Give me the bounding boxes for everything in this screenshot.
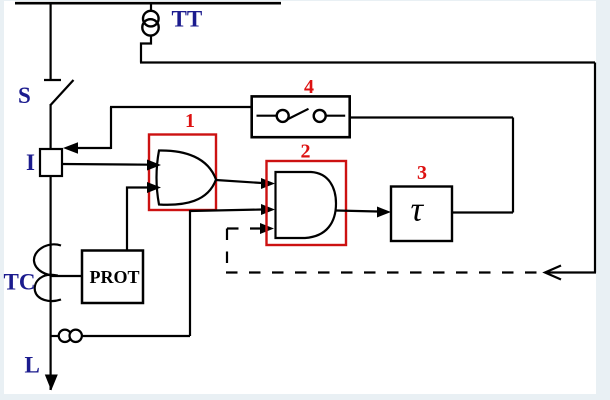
arrowhead AND input 2 xyxy=(261,204,275,215)
arrow into relay I (trip command) xyxy=(63,142,111,153)
wire: block4 to vertical xyxy=(110,106,252,108)
dashed feedback wire horizontal xyxy=(226,271,543,273)
load arrow (down) xyxy=(45,375,58,391)
red box 2 xyxy=(267,161,347,245)
wire: down from node to current sensor xyxy=(189,210,191,336)
wire: current sensor to AND input 2 xyxy=(190,210,262,212)
block 3 (time delay) xyxy=(391,187,452,242)
wire: block4 left line down to relay arrow xyxy=(110,107,112,149)
dashed feedback wire vertical xyxy=(226,229,228,274)
open arrowhead pointing left on feedback line xyxy=(545,266,561,280)
wire: AND output to block 3 xyxy=(336,211,378,212)
red box 1 xyxy=(149,135,216,211)
wire: right rail down xyxy=(594,63,596,273)
svg-text:τ: τ xyxy=(411,190,425,229)
svg-text:1: 1 xyxy=(185,110,195,132)
wire: TC to PROT xyxy=(51,275,82,277)
svg-text:TT: TT xyxy=(172,7,203,32)
busbar (top horizontal bus) xyxy=(15,2,281,5)
svg-text:3: 3 xyxy=(417,162,427,184)
wire: vertical up to block 4 line xyxy=(512,118,514,213)
wire: block 4 right line xyxy=(350,116,513,118)
PROT block xyxy=(82,251,143,304)
arrowhead OR input 1 xyxy=(147,160,161,171)
wire: block 3 output xyxy=(452,211,513,213)
wire: switch S to relay I xyxy=(49,104,51,149)
wire: relay I to load xyxy=(49,176,51,390)
wire: OR output to AND input 1 xyxy=(216,180,262,183)
dashed feedback wire into AND input 3 xyxy=(227,227,260,229)
svg-text:S: S xyxy=(18,83,31,108)
current sensor (two circles) on load line xyxy=(51,330,82,342)
svg-text:4: 4 xyxy=(304,76,314,98)
block 4 (auto-recloser contact box) xyxy=(252,96,350,137)
AND gate (element 2) xyxy=(276,172,337,238)
arrowhead OR input 2 xyxy=(147,182,161,193)
wire: current sensor to vertical xyxy=(81,335,190,337)
wire: right rail to feedback arrow (solid part) xyxy=(547,271,596,273)
svg-text:TC: TC xyxy=(4,270,36,295)
switch S (disconnector) xyxy=(44,80,74,105)
svg-text:2: 2 xyxy=(301,141,311,163)
transformer TT (voltage transformer) xyxy=(141,3,159,63)
svg-text:L: L xyxy=(25,353,40,378)
arrowhead block 3 input xyxy=(377,207,391,218)
wire: relay I output to OR input 1 xyxy=(62,163,150,166)
arrowhead AND input 1 xyxy=(261,178,275,189)
TC current transformer (two hooks) xyxy=(34,244,61,301)
svg-text:PROT: PROT xyxy=(90,267,140,287)
OR gate (element 1) xyxy=(157,150,217,204)
wire: PROT to OR input 2 xyxy=(127,188,150,251)
svg-text:I: I xyxy=(26,150,35,175)
wire: bus to switch S xyxy=(49,3,51,80)
wire: TT output to right rail xyxy=(140,61,595,63)
relay I (box) xyxy=(40,149,62,176)
arrowhead AND input 3 xyxy=(260,223,274,234)
